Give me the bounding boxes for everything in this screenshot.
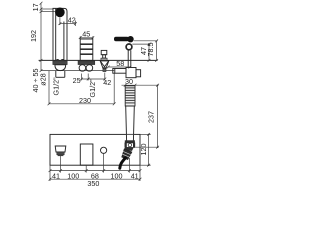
- svg-text:17: 17: [31, 3, 40, 11]
- svg-text:230: 230: [79, 96, 91, 105]
- svg-text:25: 25: [73, 76, 81, 85]
- svg-text:192: 192: [29, 30, 38, 42]
- svg-text:ø28: ø28: [38, 73, 47, 85]
- svg-text:42: 42: [103, 78, 111, 87]
- svg-text:237: 237: [147, 111, 156, 123]
- svg-text:58: 58: [116, 59, 124, 68]
- svg-text:G1/2”: G1/2”: [52, 77, 61, 96]
- svg-text:78.5: 78.5: [146, 43, 155, 57]
- svg-text:G1/2”: G1/2”: [88, 79, 97, 98]
- svg-text:45: 45: [82, 30, 90, 39]
- svg-text:350: 350: [87, 179, 99, 188]
- svg-text:42: 42: [68, 15, 76, 24]
- svg-text:120: 120: [139, 144, 148, 156]
